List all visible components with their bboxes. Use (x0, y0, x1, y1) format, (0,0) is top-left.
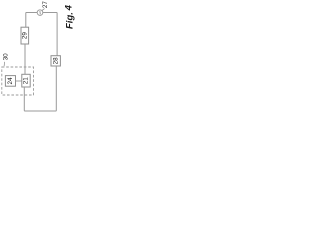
wire box 29 to box 21 (24, 44, 26, 74)
wire top-right from source to box 28 (43, 13, 57, 56)
box 24 (5, 76, 15, 87)
svg-text:29: 29 (22, 32, 29, 40)
dashed box 30 (2, 67, 34, 95)
svg-text:21: 21 (23, 77, 30, 85)
svg-text:4: 4 (64, 4, 75, 11)
label 30 leader (3, 62, 6, 66)
AC source 27 (37, 10, 43, 16)
svg-text:24: 24 (7, 77, 14, 85)
wire box 24 to box 21 (16, 80, 22, 82)
svg-text:30: 30 (3, 53, 10, 61)
box 21 (22, 74, 30, 87)
svg-text:28: 28 (52, 57, 59, 65)
label 27 leader (42, 9, 45, 11)
box 29 (21, 27, 29, 44)
svg-text:27: 27 (42, 1, 49, 9)
wire top-left from source to box 29 (26, 13, 38, 28)
box 28 (51, 56, 60, 66)
svg-text:Fig.: Fig. (64, 12, 75, 29)
wire bottom return loop (24, 66, 56, 111)
